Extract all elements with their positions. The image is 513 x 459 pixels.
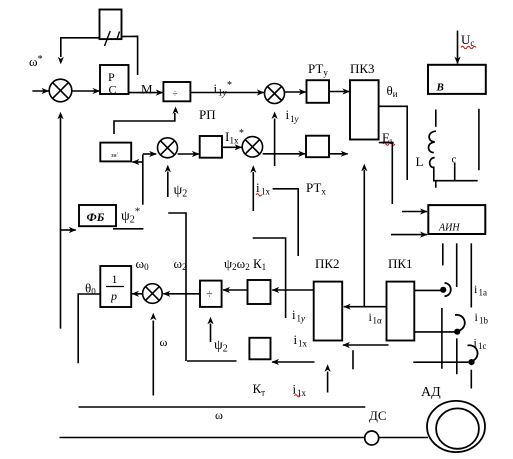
block RTx xyxy=(306,136,329,158)
block AIN (inverter) xyxy=(428,205,485,234)
red squiggle under i1x mid xyxy=(256,194,262,196)
arrow lower PK1 to PK2 xyxy=(343,344,389,346)
svg-text:АИН: АИН xyxy=(438,223,460,234)
red squiggle under i1x lower xyxy=(295,395,301,397)
arrow psi2 up into divider row3 xyxy=(210,324,212,343)
label L xyxy=(416,154,424,169)
wire omega* input arrow xyxy=(32,90,48,92)
svg-text:p: p xyxy=(110,289,117,303)
label psi2* xyxy=(121,206,140,226)
label i1x left of PK2 xyxy=(294,332,308,349)
limiter tick marks xyxy=(105,31,120,46)
phase wire C lower xyxy=(470,370,472,389)
arrow theta into AIN xyxy=(402,211,427,213)
arrowhead psi2 up xyxy=(165,165,171,173)
arrowhead up PK2 xyxy=(325,364,331,372)
label FB xyxy=(87,210,105,224)
wire divider3 to junction5 xyxy=(163,293,200,295)
wire RTx toward PK3 (floating arrow) xyxy=(329,153,348,155)
label M xyxy=(141,82,153,97)
label theta_i xyxy=(387,83,398,99)
label RP xyxy=(199,107,216,122)
arrow Uc down into rectifier xyxy=(457,31,459,64)
label Uc xyxy=(461,32,474,48)
svg-text:ψ2: ψ2 xyxy=(174,183,188,200)
inductor L coil xyxy=(429,131,436,167)
block RS (speed regulator) xyxy=(100,65,129,94)
summing junction 3 (flux) xyxy=(158,138,178,158)
svg-text:АД: АД xyxy=(421,385,441,400)
label PK2 xyxy=(315,256,340,271)
arrowhead feedback up xyxy=(57,112,63,119)
phase wire A lower xyxy=(441,308,443,369)
long vertical line x186 xyxy=(168,213,186,361)
wire psi2* riser xyxy=(142,155,144,205)
label i1y upper xyxy=(286,107,299,124)
block divider row3 xyxy=(200,281,222,307)
DS sensor circle xyxy=(365,431,379,445)
dc link left wire xyxy=(435,110,437,127)
short vertical near PK1 bottom xyxy=(352,350,354,369)
label theta0 xyxy=(85,281,96,297)
wire i1a to PK1 xyxy=(414,289,440,291)
svg-text:ПК1: ПК1 xyxy=(388,256,413,271)
block PK1 xyxy=(387,282,415,341)
arrowhead i1x up xyxy=(250,165,256,173)
label i1y left of PK2 xyxy=(292,307,305,324)
block divider RP xyxy=(163,82,190,101)
wire i1y feedback up into summing junction 2 xyxy=(274,119,276,167)
label AD xyxy=(421,385,441,400)
svg-text:ω0: ω0 xyxy=(136,256,150,272)
summing junction 5 xyxy=(143,284,163,304)
svg-text:*: * xyxy=(227,80,232,91)
svg-text:i: i xyxy=(474,282,478,296)
svg-text:Uс: Uс xyxy=(461,32,474,48)
svg-text:i: i xyxy=(475,310,479,324)
wire summing junction 4 to RTx xyxy=(263,153,306,155)
svg-text:ω*: ω* xyxy=(29,54,43,69)
label psi2 row3 xyxy=(214,338,228,355)
omega long line xyxy=(79,406,366,408)
svg-text:ДС: ДС xyxy=(369,408,387,423)
wire limiter right down xyxy=(122,36,138,75)
limiter block (saturation) xyxy=(100,10,122,40)
label i1b xyxy=(475,310,489,326)
svg-text:b: b xyxy=(484,316,489,326)
wire summing junction 1 to RS xyxy=(72,90,100,92)
label i1a xyxy=(474,282,487,298)
red squiggle under Eb xyxy=(383,143,395,146)
label RTx xyxy=(306,180,326,197)
label i1x lower xyxy=(293,382,307,399)
svg-text:÷: ÷ xyxy=(173,89,178,99)
block K1 xyxy=(248,280,271,304)
svg-text:у: у xyxy=(222,88,227,98)
svg-text:i: i xyxy=(214,81,218,96)
svg-text:с: с xyxy=(452,154,457,166)
wire RTy to PK3 xyxy=(329,91,349,93)
wire psi2 up into summing junction 3 xyxy=(167,172,169,198)
dc link right wire xyxy=(478,109,480,170)
svg-text:i: i xyxy=(292,307,296,322)
wire i1c to PK1 xyxy=(413,361,468,363)
svg-text:РТу: РТу xyxy=(308,61,328,78)
svg-text:М: М xyxy=(141,82,153,97)
svg-text:ω: ω xyxy=(160,335,168,349)
block FB (flux block) xyxy=(79,205,116,226)
label I1x* xyxy=(225,128,244,146)
wire Eb out and down xyxy=(379,143,393,204)
block ZI (intensity setter) xyxy=(100,143,131,162)
current hook 3 xyxy=(468,345,478,361)
svg-text:i: i xyxy=(474,336,478,350)
wire RS to divider with label M xyxy=(129,92,163,94)
svg-text:Кт: Кт xyxy=(253,381,266,398)
wire summing junction 2 to RTy xyxy=(285,91,306,93)
wire summing junction 3 to flux regulator xyxy=(178,153,199,155)
arrow riser into summing junction 3 xyxy=(143,153,156,155)
label omega0 xyxy=(136,256,150,272)
wire theta out right and down xyxy=(379,106,407,180)
divider sign row3 xyxy=(207,289,213,301)
label V xyxy=(436,82,444,94)
wire feedback up into summing junction 1 xyxy=(60,118,62,329)
svg-text:÷: ÷ xyxy=(207,289,213,301)
svg-text:ω: ω xyxy=(215,408,223,422)
stub to Kt xyxy=(187,360,237,362)
svg-text:1х: 1х xyxy=(261,187,271,197)
svg-text:θи: θи xyxy=(387,83,398,99)
motor outer circle xyxy=(427,401,485,452)
wire psi2 up into divider xyxy=(114,113,175,134)
label i1c xyxy=(474,336,487,352)
svg-text:1α: 1α xyxy=(373,316,383,326)
svg-text:1х: 1х xyxy=(298,339,308,349)
label DS xyxy=(369,408,387,423)
phase wire B upper xyxy=(456,243,458,287)
svg-text:ФБ: ФБ xyxy=(87,210,105,224)
label Kt xyxy=(253,381,266,398)
current hook 2 xyxy=(455,315,465,331)
label RTy xyxy=(308,61,328,78)
label omega* xyxy=(29,54,43,69)
arrow PK2 bottom to Kt xyxy=(272,361,315,363)
tiny text inside ZI xyxy=(111,152,119,159)
arrowhead psi2 row3 xyxy=(207,317,213,325)
arrow PK2 to K1 xyxy=(272,289,313,291)
svg-text:1а: 1а xyxy=(479,288,488,298)
junction dot 2 xyxy=(454,329,460,335)
wire divider to summing junction 2 with label i1y* xyxy=(190,92,263,94)
label psi2omega2 K1 xyxy=(224,256,266,272)
block V (rectifier) xyxy=(428,65,486,94)
wire i1b to PK1 xyxy=(414,331,454,333)
svg-text:i: i xyxy=(256,180,260,195)
label R S inside xyxy=(108,70,117,97)
svg-text:В: В xyxy=(436,82,444,94)
divider sign xyxy=(173,89,178,99)
svg-text:РТх: РТх xyxy=(306,180,326,197)
arrow Eb into AIN xyxy=(391,234,427,236)
fraction 1/p xyxy=(112,272,118,286)
capacitor stub xyxy=(454,163,456,181)
junction dot 1 xyxy=(440,287,446,293)
svg-text:1х: 1х xyxy=(230,136,240,146)
label AIN xyxy=(438,223,460,234)
arrow riser left into ZI xyxy=(132,161,142,163)
label i1alpha xyxy=(369,310,383,326)
label omega under line xyxy=(215,408,223,422)
wire i1x feedback up into summing junction 4 xyxy=(252,172,254,211)
svg-text:1: 1 xyxy=(112,272,118,286)
wire coil down to dc bottom xyxy=(434,167,478,181)
label PK3 xyxy=(350,61,375,76)
block RTy xyxy=(307,80,330,103)
bottom shaft line right xyxy=(379,437,428,439)
svg-text:у: у xyxy=(294,114,299,124)
wire i1alpha up to PK3 xyxy=(363,170,365,307)
block PK2 xyxy=(314,282,343,341)
arrow K1 to divider row3 xyxy=(223,289,247,291)
label i1y* xyxy=(214,80,233,98)
L-wire i1y drop xyxy=(253,238,286,318)
wire flux regulator to summing junction 4 with label I1x* xyxy=(222,146,242,148)
arrowhead into divider bottom xyxy=(172,107,178,115)
svg-text:ПК2: ПК2 xyxy=(315,256,340,271)
svg-text:ПК3: ПК3 xyxy=(350,61,375,76)
arrowhead omega* down into summing junction 1 xyxy=(58,57,64,64)
label psi2 row2 xyxy=(174,183,188,200)
block PK3 xyxy=(350,80,379,139)
label omega near arrow xyxy=(160,335,168,349)
dc bottom left stub xyxy=(435,181,437,188)
svg-text:1с: 1с xyxy=(478,341,487,351)
arrowhead i1y up xyxy=(272,112,278,120)
svg-text:L: L xyxy=(416,154,424,169)
arrow up into PK2 bottom xyxy=(327,372,329,393)
summing junction 4 xyxy=(242,137,262,157)
phase wire C upper xyxy=(470,243,472,307)
label i1x mid xyxy=(256,180,271,197)
label omega2 xyxy=(174,256,187,272)
phase wire A upper xyxy=(442,243,444,265)
wire limiter left to omega* drop xyxy=(61,38,100,57)
summing junction 2 (current y) xyxy=(265,84,285,104)
svg-text:у: у xyxy=(300,314,305,324)
svg-text:i: i xyxy=(294,332,298,347)
svg-text:*: * xyxy=(239,128,244,139)
label c xyxy=(452,154,457,166)
arrow junction5 to integrator xyxy=(132,293,142,295)
arrow omega up into junction5 xyxy=(152,321,154,396)
svg-text:ψ2*: ψ2* xyxy=(121,206,140,226)
phase wire B lower xyxy=(456,338,458,374)
arrow into FB from feedback line xyxy=(61,229,76,231)
svg-text:зиʿ: зиʿ xyxy=(111,152,119,159)
label Eb xyxy=(382,130,394,146)
arrowhead omega up xyxy=(150,313,156,321)
red squiggle under Uc xyxy=(461,46,476,49)
summing junction 1 xyxy=(49,79,72,102)
arrowhead i1alpha up xyxy=(361,164,367,172)
block flux regulator xyxy=(200,136,222,158)
motor inner circle xyxy=(436,408,479,448)
svg-text:i: i xyxy=(286,107,290,122)
current hook 1 xyxy=(445,283,451,296)
svg-text:С: С xyxy=(109,83,117,97)
block Kt xyxy=(249,338,270,360)
arrow PK1 to PK2 xyxy=(344,306,387,308)
block integrator 1/p xyxy=(100,266,131,307)
bottom shaft line left xyxy=(60,437,365,439)
L-wire right of flux regulator xyxy=(273,189,299,256)
svg-text:ψ2ω2 К1: ψ2ω2 К1 xyxy=(224,256,266,272)
junction dot 3 xyxy=(468,359,474,365)
label PK1 xyxy=(388,256,413,271)
svg-text:РП: РП xyxy=(199,107,216,122)
wire FB output xyxy=(113,228,143,230)
svg-text:ψ2: ψ2 xyxy=(214,338,228,355)
wire theta0 output down xyxy=(78,294,100,363)
svg-text:ω2: ω2 xyxy=(174,256,187,272)
